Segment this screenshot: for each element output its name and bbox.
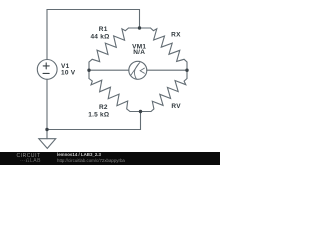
CircuitLab logo [17, 154, 41, 159]
wire left node to voltmeter [89, 69, 129, 71]
node top junction dot [138, 26, 141, 29]
voltage source V1 [37, 60, 57, 80]
resistor R2 [89, 79, 130, 112]
wire bottom node horizontal stub [130, 111, 151, 113]
ground [46, 130, 48, 139]
watermark url [57, 159, 125, 163]
wire V1- down [46, 79, 48, 129]
node bottom junction dot [139, 110, 142, 113]
wire left node vertical stub [88, 62, 90, 79]
watermark bar [0, 152, 220, 165]
voltmeter arrow head [140, 68, 144, 73]
svg-text:RX: RX [171, 32, 181, 39]
V1 plus sign [43, 63, 49, 74]
V1 minus sign [43, 72, 49, 74]
resistor RX [151, 28, 188, 62]
svg-text:R1: R1 [99, 26, 108, 33]
svg-text:RV: RV [171, 103, 181, 110]
node ground junction dot [45, 128, 48, 131]
svg-text:R2: R2 [99, 104, 108, 111]
resistor R1 [89, 28, 129, 62]
voltmeter arc [134, 63, 139, 80]
wire bottom return [47, 112, 141, 130]
svg-text:44 kΩ: 44 kΩ [90, 34, 109, 41]
node left junction dot [87, 69, 90, 72]
node right junction dot [185, 69, 188, 72]
svg-text:N/A: N/A [133, 49, 145, 56]
svg-text:1.5 kΩ: 1.5 kΩ [88, 111, 109, 118]
svg-text:10 V: 10 V [61, 69, 76, 76]
wire top node horizontal stub [129, 27, 151, 29]
voltmeter VM1 [129, 61, 147, 79]
voltmeter needle [131, 63, 140, 75]
wire top loop V1+ to top node [47, 10, 140, 60]
wire right node vertical stub [186, 62, 188, 79]
resistor RV [151, 79, 187, 112]
watermark title [57, 153, 101, 157]
wire voltmeter to right node [147, 69, 187, 71]
